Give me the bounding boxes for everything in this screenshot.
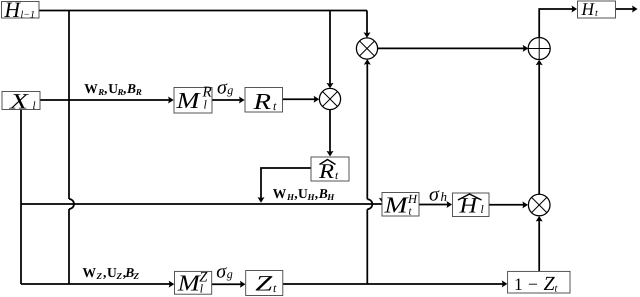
wire Hhat_l to multiply right [489,204,526,206]
arrowhead odd at M_t^H corner [379,198,386,204]
wire M_t^H to Hhat_l with sigma_h [419,204,450,206]
svg-text:g: g [227,267,233,281]
box H_{l-1} [2,0,40,22]
svg-text:Z: Z [116,271,123,281]
svg-text:M: M [383,193,409,218]
svg-text:U: U [107,265,117,280]
box M_l^R [174,85,212,114]
wire vertical bus x=69 with hop over y=204 line [69,11,74,285]
svg-text:l−1: l−1 [21,10,36,21]
label sigma_g (bottom) [216,261,233,283]
svg-text:l: l [33,100,36,112]
plus node [528,38,550,60]
box M_l^Z [175,270,212,296]
multiply node (R gate) [319,88,340,109]
wire top bus from H_{l-1} [39,10,367,12]
svg-text:R: R [252,89,271,114]
svg-text:U: U [298,186,308,201]
svg-text:W: W [84,81,98,96]
svg-text:Z: Z [255,271,273,296]
wire Z_t to 1-Z_t box [283,283,505,285]
svg-text:,: , [315,186,318,201]
svg-text:σ: σ [216,261,227,283]
wire vertical from X_t bottom x=21 [20,110,22,285]
svg-text:H: H [326,192,335,202]
svg-text:,: , [104,81,107,96]
svg-text:M: M [177,271,202,296]
svg-text:Z: Z [96,271,103,281]
wire R_t to multiply node [283,98,317,100]
svg-text:−: − [528,274,538,294]
svg-text:g: g [227,83,233,97]
wire top bus drop to middle multiply x=330 [329,11,331,87]
multiply node (top) [356,38,377,59]
svg-text:1: 1 [514,274,523,294]
wire bottom bus to M_l^Z [21,283,172,285]
svg-text:h: h [441,189,448,204]
svg-text:R: R [135,87,142,97]
svg-text:W: W [273,186,287,201]
box 1-Z_t [508,271,570,295]
svg-text:R: R [318,159,334,183]
svg-text:H: H [407,192,418,206]
svg-text:t: t [595,8,598,19]
svg-text:H: H [458,193,478,218]
label W_Z,U_Z,B_Z [83,265,140,281]
box H_t [578,0,616,19]
wire Rhat_t branch down to concat line [261,168,311,200]
svg-text:l: l [481,204,484,216]
label W_H,U_H,B_H [273,186,336,202]
wire 1-Z_t up to multiply right [538,218,540,271]
wire vertical x=367 from bottom bus to top multiply, hop over y=204 [367,62,372,284]
wire multiply right up to plus node [538,62,540,194]
svg-text:H: H [4,0,22,22]
svg-text:,: , [103,265,106,280]
box R_t [245,88,283,115]
svg-text:Z: Z [133,271,140,281]
wire M_l^Z to Z_t with sigma_g [212,283,243,285]
wire X_t output to M_l^R [40,99,171,101]
wire drop into multiply node top-right [366,11,368,36]
svg-text:M: M [175,88,201,113]
wire plus node output to H_t [539,9,574,38]
box M_t^H [382,192,419,218]
svg-text:H: H [581,0,595,19]
wire multiply to Rhat_t [329,110,331,154]
svg-text:X: X [9,88,30,113]
box Hhat_l [453,193,490,218]
svg-text:,: , [123,81,126,96]
label sigma_g (top) [217,77,233,99]
svg-text:σ: σ [429,184,440,206]
label sigma_h [429,184,447,206]
box X_t [2,88,40,113]
box Rhat_t [311,157,349,183]
label W_R,U_R,B_R [84,81,142,97]
wire H_t output [616,8,636,10]
wire multiply top-right to plus node [378,47,526,49]
multiply node (right) [528,194,550,216]
wire M_l^R to R_t with sigma_g [212,99,242,101]
wire concat line y=204 [21,203,382,205]
svg-text:W: W [83,265,97,280]
svg-text:B: B [126,81,136,96]
box Z_t [246,271,283,296]
